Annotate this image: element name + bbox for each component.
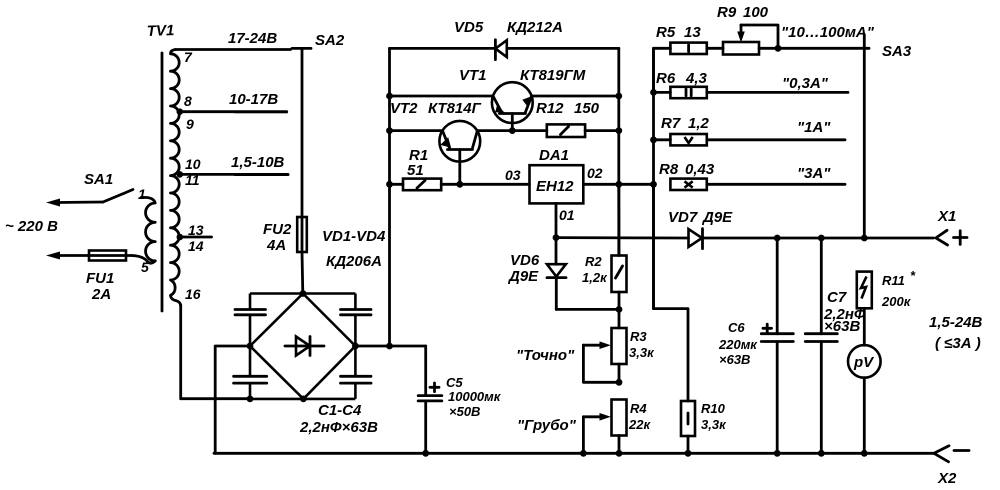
resistor R5 [654,43,724,93]
wire tap13 [180,236,212,239]
svg-text:10-17В: 10-17В [229,91,278,108]
wire VD6 to R2 bottom [556,308,619,311]
transistor VT2 [439,121,480,184]
svg-text:100: 100 [743,4,769,21]
svg-text:17-24В: 17-24В [228,30,277,47]
svg-text:7: 7 [184,49,193,65]
svg-text:КТ814Г: КТ814Г [428,100,482,117]
diode VD7 [689,229,703,249]
svg-text:R2: R2 [585,254,602,269]
svg-text:×63В: ×63В [824,318,860,335]
junction wire A left [386,93,393,100]
junction wire B left [386,127,393,134]
junction R6 tap [650,89,657,96]
svg-text:150: 150 [574,100,600,117]
bridge inner diode symbol [285,337,324,356]
svg-text:1,5-24В: 1,5-24В [929,314,983,331]
junction C5 bottom [422,450,429,457]
wire DA1 output to rails [583,183,653,186]
svg-text:FU1: FU1 [86,270,114,287]
svg-text:Д9Е: Д9Е [507,268,539,285]
junction bridge bottom-left corner [247,396,254,403]
junction R7 tap [650,136,657,143]
svg-text:"0,3А": "0,3А" [782,75,829,92]
svg-text:"Точно": "Точно" [516,347,575,364]
capacitor C1 [235,310,266,315]
capacitor C5 [418,346,442,453]
label output range [929,314,983,352]
svg-text:R11: R11 [882,273,905,288]
bridge rectifier VD1-VD4 [250,294,355,399]
junction R3 bottom [616,379,623,386]
wire C regulator row left [390,183,404,186]
svg-text:SA1: SA1 [84,171,113,188]
junction VT2 base on wire C [456,181,463,188]
svg-text:R10: R10 [701,401,726,416]
resistor R1 [403,179,441,191]
svg-text:КД212А: КД212А [507,19,563,36]
junction pin 01 node [553,234,560,241]
junction bridge right vertex [352,343,359,350]
resistor R7 [654,134,846,145]
svg-text:TV1: TV1 [147,22,175,40]
svg-text:"Грубо": "Грубо" [517,417,577,434]
svg-text:R4: R4 [630,401,647,416]
potentiometer R4 [612,400,627,454]
svg-text:R7: R7 [661,115,681,132]
svg-text:10000мк: 10000мк [448,389,502,404]
svg-text:3,3к: 3,3к [701,417,727,432]
diode VD6 [547,238,566,310]
label C5 value [448,389,502,419]
ladder rail R5-R8 [652,48,655,308]
svg-text:01: 01 [559,207,575,223]
svg-text:SA3: SA3 [882,43,912,60]
connector X1 [936,230,967,245]
svg-text:0,43: 0,43 [685,161,715,178]
resistor R11 [857,272,872,309]
raw plus rail vertical [388,48,391,346]
label C7 value [823,306,866,335]
svg-text:VD6: VD6 [510,252,540,269]
voltmeter PV [848,308,881,453]
wire plus output row [556,236,934,239]
wire bridge plus output [355,345,425,348]
bottom rail wire [214,452,934,455]
connector X2 [934,446,969,462]
svg-text:"1А": "1А" [797,119,831,136]
junction R10 bottom [685,450,692,457]
junction wire C right rail [615,181,622,188]
resistor R8 [670,179,845,190]
capacitor C4 [341,376,372,383]
switch SA3 [863,35,866,239]
wire tap8 [180,110,287,113]
svg-text:03: 03 [505,167,521,183]
svg-text:VT2: VT2 [390,100,418,117]
svg-text:9: 9 [186,116,194,132]
svg-text:~ 220 В: ~ 220 В [5,218,58,235]
svg-text:С5: С5 [446,375,463,390]
svg-text:FU2: FU2 [263,221,292,238]
wire ladder to R10 [654,184,689,401]
svg-text:VT1: VT1 [459,67,487,84]
junction bridge bottom vertex [300,396,307,403]
fuse FU1 [46,251,132,261]
svg-text:ЕН12: ЕН12 [536,178,574,195]
wire tap16 to bridge [181,305,250,399]
junction raw plus rail bottom [386,343,393,350]
wire DA1 pin 01 [555,203,558,237]
fuse FU2 [297,217,307,294]
resistor R12 [547,124,619,137]
svg-text:1,5-10В: 1,5-10В [231,154,285,171]
svg-text:4,3: 4,3 [685,70,708,87]
junction R2 bottom [616,306,623,313]
right output rail vertical [617,48,620,255]
svg-text:R3: R3 [630,329,647,344]
junction VT1 base [509,127,516,134]
svg-text:×63В: ×63В [719,352,750,367]
regulator DA1 [530,165,584,203]
resistor R6 [654,87,849,98]
wire tap10 [180,173,288,176]
junction tap10 [177,171,184,178]
capacitor C6 [761,238,793,453]
svg-text:VD5: VD5 [454,19,484,36]
wire R9 to SA3 [759,47,869,50]
switch SA1 [46,190,133,207]
junction plus wire SA3 [861,235,868,242]
junction wire B right [615,127,622,134]
svg-text:"3А": "3А" [797,165,831,182]
transformer TV1 [132,50,181,312]
svg-text:×50В: ×50В [449,404,480,419]
svg-text:КД206А: КД206А [326,253,382,270]
svg-text:DA1: DA1 [539,147,569,164]
junction PV bottom [861,450,868,457]
svg-text:С7: С7 [827,289,847,306]
junction tap8 [177,108,184,115]
svg-text:R8: R8 [659,161,679,178]
svg-text:R5: R5 [656,24,676,41]
svg-text:X2: X2 [937,470,957,487]
junction wire C ladder [650,181,657,188]
svg-text:02: 02 [587,165,603,181]
capacitor C3 [341,310,372,315]
resistor R2 [612,184,627,309]
resistor R10 [681,401,695,453]
junction wire A right [615,93,622,100]
svg-text:SA2: SA2 [315,32,345,49]
svg-text:8: 8 [184,93,192,109]
capacitor C7 [805,238,837,453]
svg-text:VD7: VD7 [668,209,698,226]
svg-text:R6: R6 [656,70,676,87]
wire tap7 to SA2 [176,48,291,51]
svg-text:КТ819ГМ: КТ819ГМ [520,67,586,84]
wire B base row [390,129,547,132]
svg-text:С6: С6 [728,320,745,335]
potentiometer R3 [612,309,627,382]
svg-text:R12: R12 [536,100,564,117]
svg-text:2,2нФ×63В: 2,2нФ×63В [299,419,378,436]
junction plus wire C7 [818,235,825,242]
transistor VT1 [492,82,533,130]
svg-text:Д9Е: Д9Е [701,209,733,226]
junction R4 bottom [616,450,623,457]
wire R1 to DA1 [441,183,529,186]
svg-text:( ≤3А ): ( ≤3А ) [935,335,981,352]
svg-text:X1: X1 [937,208,956,225]
junction R4 wiper ground [580,450,587,457]
svg-text:16: 16 [185,286,201,302]
svg-text:VD1-VD4: VD1-VD4 [322,228,386,245]
svg-text:R9: R9 [717,4,737,21]
svg-text:3,3к: 3,3к [629,345,655,360]
junction bridge top vertex [300,290,307,297]
wire VD5 top rail [390,47,619,50]
R4 wiper arm [583,413,610,453]
svg-text:200к: 200к [881,294,912,309]
capacitor C2 [234,376,267,383]
svg-text:2А: 2А [91,286,111,303]
junction bridge left vertex [247,343,254,350]
rheostat R9 [723,25,778,55]
diode VD5 [495,40,506,60]
svg-text:220мк: 220мк [718,337,758,352]
svg-text:1,2: 1,2 [688,115,710,132]
junction C7 bottom [818,450,825,457]
svg-text:10: 10 [185,156,201,172]
svg-text:С1-С4: С1-С4 [318,402,362,419]
junction plus wire C6 [774,235,781,242]
junction C6 bottom [774,450,781,457]
svg-text:5: 5 [141,259,149,275]
svg-text:4А: 4А [266,237,286,254]
svg-text:1,2к: 1,2к [582,270,608,285]
svg-text:14: 14 [188,238,204,254]
label C6 value [718,337,758,367]
wire bridge minus to bottom rail [215,346,250,453]
R3 wiper arm [583,341,619,382]
svg-text:"10…100мА": "10…100мА" [781,24,875,41]
switch SA2 [292,48,311,217]
svg-text:pV: pV [853,354,875,371]
junction tap13 [177,234,184,241]
svg-text:13: 13 [684,24,701,41]
svg-text:1: 1 [138,186,146,202]
junction wire C left [386,181,393,188]
junction R9 wiper [775,45,782,52]
wire A collector row [390,95,619,98]
svg-text:22к: 22к [628,417,651,432]
svg-text:51: 51 [407,162,424,179]
